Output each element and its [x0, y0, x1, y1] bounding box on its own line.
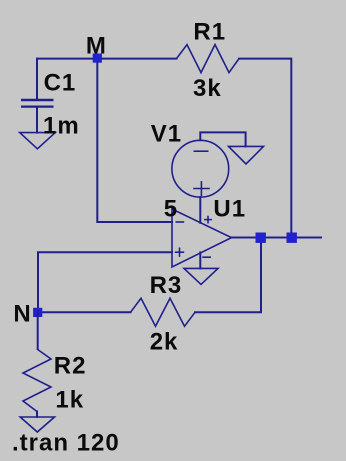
wire output	[232, 237, 322, 239]
wire V1 plus to ground flag	[200, 132, 245, 146]
ground under R2	[20, 417, 54, 432]
svg-text:R3: R3	[150, 272, 183, 299]
svg-text:R2: R2	[54, 353, 87, 380]
ground flag right of V1	[229, 146, 264, 164]
resistor R1	[177, 45, 240, 73]
op-amp U1	[172, 209, 232, 267]
svg-text:C1: C1	[44, 70, 77, 97]
ground under op-amp	[184, 268, 218, 284]
wire V1 minus to op-amp V+	[199, 197, 201, 223]
voltage source V1	[172, 140, 229, 197]
wire R3 right to output node	[195, 238, 261, 313]
svg-text:1k: 1k	[55, 386, 84, 413]
svg-text:2k: 2k	[150, 329, 179, 356]
junction output right	[287, 233, 297, 243]
wire top from C1 to R1 left	[37, 58, 177, 60]
ground under C1	[20, 133, 56, 149]
wire noninverting input to N	[38, 252, 172, 312]
junction output left	[256, 233, 266, 243]
svg-text:.tran 120: .tran 120	[12, 429, 120, 456]
svg-text:R1: R1	[193, 18, 226, 45]
resistor R2	[23, 312, 51, 417]
resistor R3	[131, 298, 196, 326]
capacitor C1	[21, 59, 54, 133]
wire op-amp V- to ground	[199, 252, 201, 268]
svg-text:3k: 3k	[193, 75, 222, 102]
svg-text:V1: V1	[151, 121, 182, 148]
svg-text:1m: 1m	[43, 113, 80, 140]
junction M	[93, 54, 102, 63]
junction N	[33, 308, 42, 317]
svg-text:U1: U1	[213, 196, 246, 223]
wire top right of R1 and down to output node	[239, 59, 291, 238]
wire M vertical to inverting input	[97, 59, 172, 222]
svg-text:N: N	[13, 300, 31, 327]
svg-text:5: 5	[164, 195, 178, 222]
